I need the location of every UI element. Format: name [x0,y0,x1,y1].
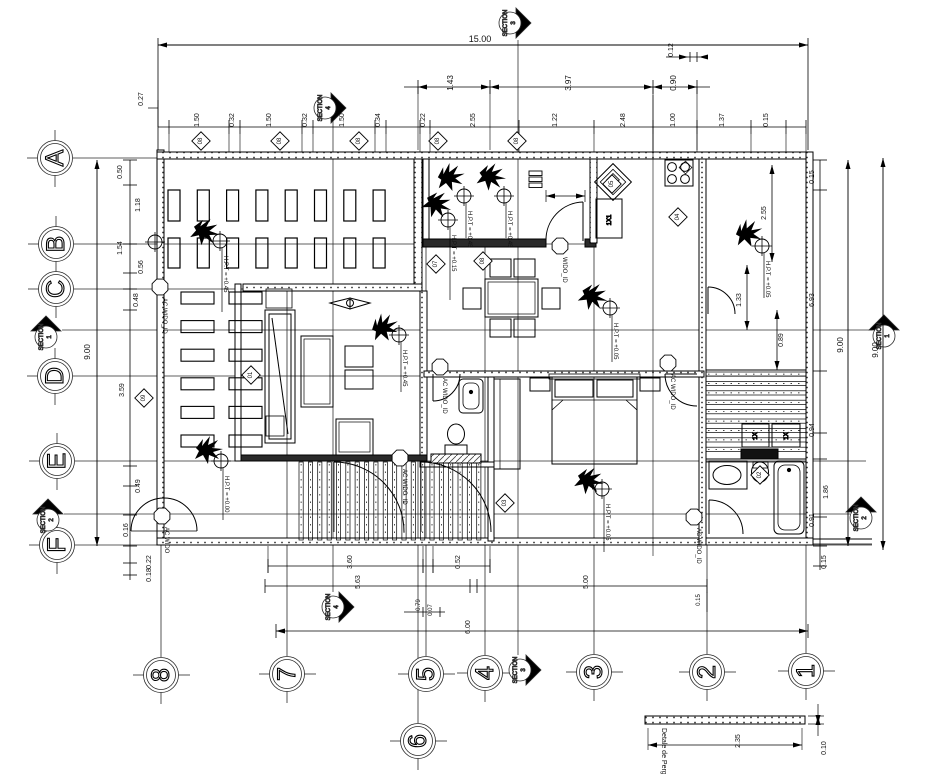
bubble F [29,517,75,574]
section marker 2 left [33,499,63,533]
svg-text:1.43: 1.43 [446,75,455,91]
svg-text:08: 08 [480,257,486,264]
svg-text:AC WIDO_ID: AC WIDO_ID [669,374,675,410]
bubble 3 [566,655,623,702]
sofa living [301,336,333,407]
bath-left tub [459,379,483,413]
grid line D [73,375,806,377]
dim bottom 3.60 / 0.52 [268,565,490,567]
svg-text:0.89: 0.89 [778,333,785,347]
svg-text:0.49: 0.49 [135,479,142,493]
dim terrace 0.89 [776,310,778,370]
svg-text:C: C [42,280,70,298]
tag 01 [242,366,260,384]
bubble B [28,216,74,273]
svg-text:SECTION: SECTION [318,95,324,122]
svg-text:H.P.T = +0.45: H.P.T = +0.45 [401,350,407,387]
dim terrace 2.55 [771,165,773,262]
svg-text:1.86: 1.86 [823,485,830,499]
entry door bottom-left [131,498,197,531]
deck boards bottom-center [299,462,481,540]
svg-text:08: 08 [198,137,204,144]
wall right bath top (y460) [706,458,806,460]
grid line A [73,157,157,159]
svg-text:1X: 1X [753,432,759,439]
dim top 15.00 [158,44,808,46]
svg-text:07: 07 [433,260,439,267]
sofa cushions [345,346,373,367]
wall patio left (x424) [423,159,429,243]
wall outer top [157,152,813,159]
tag 08 c [350,132,368,150]
ac marker entry hall [552,238,568,254]
svg-text:0.90: 0.90 [669,75,678,91]
svg-text:WIDO_ID: WIDO_ID [561,257,567,283]
svg-text:1.54: 1.54 [117,241,124,255]
svg-text:AC WIDO_ID: AC WIDO_ID [161,298,167,334]
dim chain top y127 [158,126,806,128]
wall outer right [806,152,813,545]
ceiling fan living [330,298,350,309]
svg-text:03: 03 [502,499,508,506]
dim row 1.43 / 3.97 / 0.90 [404,86,710,88]
TV cabinet living room [265,310,295,443]
plant P2 patio [435,161,467,193]
pergola dim 2.35 [648,744,802,746]
pergola dim 0.10 [817,712,819,716]
deck boards right strip [706,372,806,451]
svg-text:1.50: 1.50 [339,113,346,127]
grid line F [75,544,872,546]
grid line 6 [417,461,419,723]
section line 4-4 vertical [332,120,334,592]
deck door arcs from living [334,462,404,532]
svg-text:0.48: 0.48 [133,293,140,307]
svg-text:H.P.T = +0.45: H.P.T = +0.45 [466,211,472,248]
svg-text:SECTION: SECTION [854,505,860,532]
svg-text:AC WIDO_ID: AC WIDO_ID [695,528,701,564]
svg-text:0.22: 0.22 [146,555,153,569]
bath-left toilet [448,424,465,444]
wall kitchen left (x593) [590,159,597,243]
dim chain left [129,160,131,580]
svg-text:AC WIDO: AC WIDO [163,527,169,554]
pergola detail bar [645,716,805,724]
wall left-room bottom (y287) [243,284,422,291]
svg-text:SECTION: SECTION [326,594,332,621]
dining table [485,279,538,317]
svg-text:0.12: 0.12 [668,43,675,57]
svg-text:9.00: 9.00 [871,342,880,358]
terrace door right strip [707,287,709,314]
grid line 4 [484,244,486,655]
section marker 4 bottom [322,592,354,622]
svg-text:1: 1 [792,664,820,678]
svg-text:SECTION: SECTION [503,10,509,37]
svg-text:F: F [43,537,71,552]
svg-text:1X1: 1X1 [607,214,613,225]
pergola slats lower-left area [181,292,262,447]
svg-text:1.18: 1.18 [135,198,142,212]
svg-text:AC WIDO_ID: AC WIDO_ID [401,469,407,505]
wall wardrobe/deck (x491) [488,377,494,541]
bubble 8 [133,658,190,705]
grid line E [75,460,866,462]
svg-text:H.P.T = +0.05: H.P.T = +0.05 [612,323,618,360]
svg-text:H.P.T = +0.05: H.P.T = +0.05 [764,261,770,298]
water heater coil [529,171,542,176]
right bath door [708,500,710,534]
bubble 1 [778,654,835,701]
section line 3-3 vertical [517,40,519,655]
svg-text:H.P.T = +0.45: H.P.T = +0.45 [222,256,228,293]
svg-text:0.52: 0.52 [455,555,462,569]
dim door 1.50 [546,195,585,197]
svg-text:08: 08 [514,137,520,144]
tag 07 [427,255,445,273]
svg-text:1.37: 1.37 [719,113,726,127]
tag 05 [603,175,621,193]
coffee table living [336,419,373,455]
svg-text:0.56: 0.56 [138,260,145,274]
svg-text:0.15: 0.15 [763,113,770,127]
bubble C [28,272,74,319]
dim bottom 5.63 / 5.00 [265,585,707,587]
tag 02 [751,466,769,484]
svg-text:15.00: 15.00 [469,34,492,44]
kitchen counter [596,199,622,238]
svg-text:0.15: 0.15 [821,555,828,569]
plant P5 terrace [732,216,766,250]
section line 2-2 horizontal [64,513,850,515]
dim terrace 1.33 [746,265,748,330]
svg-text:09: 09 [141,394,147,401]
wall outer bottom [157,538,813,545]
plant P8 bottom-left [195,436,223,464]
svg-text:02: 02 [757,471,763,478]
bubble D [27,348,73,405]
right bath shower tub [774,461,804,534]
svg-text:2.35: 2.35 [735,734,742,748]
svg-text:2.55: 2.55 [761,206,768,220]
svg-text:08: 08 [356,137,362,144]
tag 08 f [474,252,492,270]
svg-text:8: 8 [147,668,175,682]
svg-text:6.00: 6.00 [465,620,472,634]
ac marker bath-left [432,359,448,375]
section marker 3 top [499,8,531,38]
right bath vanity [709,461,747,489]
svg-text:0.27: 0.27 [138,92,145,106]
svg-text:SECTION: SECTION [513,657,519,684]
svg-text:2: 2 [693,665,721,679]
dim left 9.00 [96,160,98,546]
plant P3 patio [476,161,508,193]
grid line 8 [160,545,162,657]
svg-text:0.94: 0.94 [809,423,816,437]
tag 08 d [429,132,447,150]
svg-text:3: 3 [580,665,608,679]
svg-text:1.50: 1.50 [194,113,201,127]
section marker 2 right [846,497,876,531]
svg-text:01: 01 [248,371,254,378]
svg-text:AC WIDO_ID: AC WIDO_ID [441,378,447,414]
svg-text:H.P.T = +0.05: H.P.T = +0.05 [604,504,610,541]
svg-text:0.91: 0.91 [809,513,816,527]
ac marker right bath [686,509,702,525]
svg-text:2.55: 2.55 [470,113,477,127]
svg-text:6.93: 6.93 [809,293,816,307]
ac marker left wall [152,279,168,295]
section marker 1 left [31,316,61,350]
tag 08 e [508,132,526,150]
ac marker entry left [154,508,170,524]
grid line 2 [706,545,708,654]
wall deck top below living (y458) [241,455,427,461]
grid line B [74,243,596,245]
dim 0.12 [666,56,700,58]
svg-text:SECTION: SECTION [41,507,47,534]
svg-text:9.00: 9.00 [836,337,845,353]
dim right inner chain [819,160,821,570]
svg-text:H.P.T = +0.45: H.P.T = +0.45 [506,211,512,248]
svg-text:E: E [43,453,71,470]
bubble E [29,433,75,490]
plant P7 bedroom [573,464,607,498]
svg-text:0.16: 0.16 [123,523,130,537]
pergola slats top-left room [168,190,385,268]
plant P9 living upper [367,309,403,345]
svg-text:7: 7 [273,667,301,681]
bubble 5 [398,657,455,692]
svg-text:Detale de Pergola: Detale de Pergola [660,728,667,774]
plant P4 patio [419,186,456,223]
svg-text:5: 5 [412,667,440,681]
bedroom door top-right [665,373,697,375]
section line 1-1 horizontal [62,329,872,331]
grid line C [74,288,422,290]
wall living right / bath left (x423) [420,291,427,465]
wall house right interior (x702, grid 2) [699,159,706,545]
bubble 7 [259,657,316,704]
svg-text:6: 6 [404,734,432,748]
svg-text:0.18: 0.18 [146,568,153,582]
svg-text:1.50: 1.50 [266,113,273,127]
svg-text:1.33: 1.33 [736,293,743,307]
ac marker bedroom door [660,355,676,371]
bubble 6 [390,724,447,771]
tag 09 [135,389,153,407]
tag 08 a [192,132,210,150]
bubble 4 [457,656,514,703]
dim right 9.00 a [847,160,849,546]
wall bottom extension right [813,538,872,540]
wall right strip deck top (y371) [706,369,806,371]
grid line 5 [425,160,427,656]
tag 03 [496,494,514,512]
ac marker deck living [392,450,408,466]
bed [552,377,637,464]
plant P1 top-left room [189,215,223,249]
grid line 1 [805,545,807,653]
wall bedroom top (y374, grid D) [424,371,704,377]
svg-text:0.10: 0.10 [821,741,828,755]
svg-text:B: B [42,236,70,253]
grid line 7 [286,285,288,656]
kitchen sink (rotated) [595,164,632,201]
dim right 9.00 b [882,158,884,550]
svg-text:0.15: 0.15 [696,594,702,606]
dining chairs [490,259,511,277]
svg-text:0.79: 0.79 [416,599,422,611]
svg-text:0.50: 0.50 [117,165,124,179]
svg-text:0.15: 0.15 [809,170,816,184]
nightstand left [530,378,550,391]
nightstand right [640,378,660,391]
entry door kitchen [582,202,584,241]
svg-text:SECTION: SECTION [39,324,45,351]
svg-text:0.32: 0.32 [229,113,236,127]
svg-text:4: 4 [471,666,499,680]
svg-text:3.59: 3.59 [119,383,126,397]
stove 4 burners [665,160,693,186]
section marker 3 bottom [509,655,541,685]
svg-text:H.P.T = +0.15: H.P.T = +0.15 [450,235,456,272]
svg-text:0.07: 0.07 [428,604,434,616]
wardrobe [494,379,520,469]
wall left-room right (x415) [414,159,422,291]
svg-text:5.00: 5.00 [583,575,590,589]
right deck dark steps [741,449,778,459]
grid line 3 [593,160,595,654]
wall marker B left [148,235,162,249]
wall bath-left bottom (y465) [420,462,494,467]
svg-text:9.00: 9.00 [83,344,92,360]
svg-text:D: D [41,367,69,385]
wall patio bottom (y243) [423,239,546,247]
bath-left vanity [431,454,481,463]
svg-text:H.P.T = +0.00: H.P.T = +0.00 [223,476,229,513]
wall outer left [157,150,164,545]
plant P6 living [576,279,612,315]
svg-text:05: 05 [609,180,615,187]
tag 08 b [271,132,289,150]
dim bottom long 6.00 [276,630,808,632]
section marker 4 upper [314,93,346,123]
bubble A [27,130,73,187]
svg-text:04: 04 [675,213,681,220]
section marker 1 right [869,315,899,349]
svg-text:1.22: 1.22 [552,113,559,127]
svg-text:08: 08 [277,137,283,144]
svg-text:3.60: 3.60 [347,555,354,569]
svg-text:1X: 1X [784,432,790,439]
right bath toilet [752,462,769,482]
tag 04 [669,208,687,226]
right deck step boxes [742,424,769,447]
svg-text:1.00: 1.00 [670,113,677,127]
svg-text:2.48: 2.48 [620,113,627,127]
svg-text:3.97: 3.97 [564,75,573,91]
bubble 2 [679,655,736,702]
svg-text:A: A [41,149,69,166]
extension line x653 [652,95,654,556]
svg-text:0.32: 0.32 [302,113,309,127]
svg-text:0.34: 0.34 [375,113,382,127]
svg-text:08: 08 [435,137,441,144]
svg-text:0.22: 0.22 [420,113,427,127]
svg-text:5.63: 5.63 [355,575,362,589]
wall living left (x238) [235,284,241,461]
bath-left door [432,374,434,401]
